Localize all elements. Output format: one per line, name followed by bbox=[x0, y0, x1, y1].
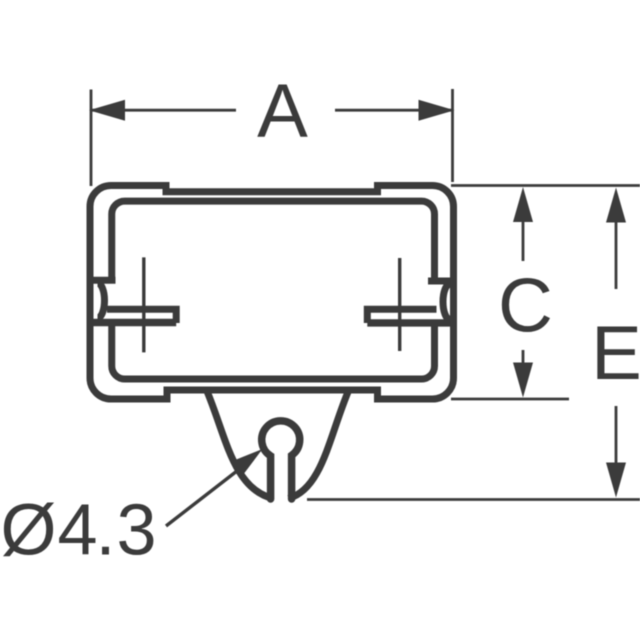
svg-text:A: A bbox=[257, 69, 308, 154]
svg-text:Ø4.3: Ø4.3 bbox=[1, 491, 158, 571]
svg-text:E: E bbox=[591, 311, 640, 396]
svg-text:C: C bbox=[498, 264, 553, 349]
